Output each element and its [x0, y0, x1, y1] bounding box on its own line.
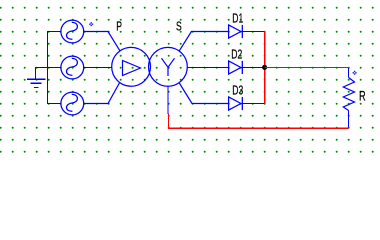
node: junction dot [262, 65, 267, 70]
diode D1 [229, 25, 243, 38]
transformer T1 primary circle [112, 47, 151, 86]
wire: V2 to transformer primary [83, 67, 112, 69]
wire: junction to resistor (red) [265, 67, 350, 69]
polarity marker of V1 [89, 22, 93, 26]
source V1 (AC) [61, 20, 84, 43]
wire: ground tap [35, 68, 47, 80]
wire: secondary mid to D2 [187, 67, 228, 69]
svg-text:R: R [359, 87, 366, 104]
wire: secondary neutral pin down [167, 86, 169, 114]
polarity marker of R [353, 71, 357, 75]
wire: left vertical bus [47, 31, 49, 104]
wire: row1 lead bus to source V1 [47, 31, 61, 33]
wire: D2 cathode [242, 67, 264, 69]
wire: neutral return (red) [169, 114, 349, 129]
wire: D3 cathode [242, 103, 264, 105]
source V3 (AC) [61, 92, 84, 115]
wire: row3 lead bus to source V3 [47, 103, 61, 105]
wire: D1 cathode [242, 31, 264, 33]
wire: V1 to transformer primary (with diagonal) [83, 32, 120, 51]
wire: secondary top to D1 (diagonal) [179, 32, 229, 52]
delta symbol of primary [123, 61, 141, 76]
diode D3 [229, 97, 243, 110]
ground [27, 79, 46, 87]
wire: resistor top pin [348, 68, 350, 78]
transformer T1 secondary circle [149, 47, 188, 86]
svg-text:D3: D3 [232, 84, 243, 98]
svg-text:D2: D2 [231, 48, 242, 62]
diode D2 [229, 61, 243, 74]
wye symbol of secondary [162, 58, 175, 76]
svg-text:P: P [116, 20, 122, 34]
svg-text:D1: D1 [232, 12, 243, 26]
source V2 (AC) [61, 56, 84, 79]
wire: resistor bottom pin [348, 111, 350, 128]
wire: V3 to transformer primary (with diagonal) [83, 83, 119, 104]
wire: cathode bus (red) [264, 31, 266, 104]
svg-text:S: S [176, 20, 182, 34]
wire: secondary bottom to D3 (diagonal) [179, 83, 228, 104]
wire: row2 lead bus to source V2 [47, 67, 61, 69]
resistor R [343, 78, 354, 111]
